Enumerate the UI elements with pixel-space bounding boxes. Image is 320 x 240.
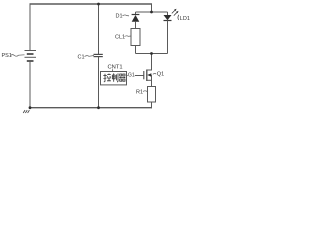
label PS1 bbox=[2, 53, 25, 59]
wire LED-branch top node bbox=[136, 11, 168, 13]
junction node at top right bbox=[150, 11, 153, 14]
svg-text:G1: G1 bbox=[128, 72, 135, 78]
junction node ground corner bbox=[29, 106, 32, 109]
wire left rail upper bbox=[29, 4, 31, 51]
junction node at LED bottom bbox=[150, 52, 153, 55]
svg-text:LD1: LD1 bbox=[180, 16, 190, 22]
wire top right drop bbox=[151, 4, 153, 12]
current limiter CL1 box bbox=[131, 29, 140, 46]
label LD1 bbox=[178, 15, 190, 22]
svg-text:D1: D1 bbox=[116, 14, 123, 20]
controller CNT1 chinese text bbox=[103, 73, 125, 82]
svg-text:Q1: Q1 bbox=[157, 72, 164, 78]
junction node C1/bottom rail bbox=[97, 106, 100, 109]
svg-text:CL1: CL1 bbox=[115, 35, 125, 41]
label CL1 bbox=[115, 35, 131, 41]
diode D1 bbox=[132, 12, 140, 29]
svg-text:CNT1: CNT1 bbox=[108, 64, 123, 70]
svg-text:C1: C1 bbox=[78, 55, 85, 61]
label Q1 bbox=[153, 72, 164, 78]
wire node to Q1 drain bbox=[147, 54, 152, 71]
label C1 bbox=[78, 55, 95, 61]
wire R1 to bottom rail bbox=[151, 102, 153, 108]
LED LD1 bbox=[164, 12, 172, 54]
svg-text:R1: R1 bbox=[136, 89, 143, 95]
label R1 bbox=[136, 89, 148, 95]
LED light arrows bbox=[172, 9, 179, 16]
svg-text:PS1: PS1 bbox=[2, 53, 12, 59]
junction node C1/top rail bbox=[97, 3, 100, 6]
wire top rail bbox=[30, 3, 153, 5]
ground bbox=[23, 110, 29, 113]
wire C1 branch upper bbox=[98, 4, 100, 55]
battery PS1 bbox=[25, 51, 37, 62]
wire C1 branch lower bbox=[98, 57, 100, 108]
wire bottom rail bbox=[30, 107, 153, 109]
capacitor C1 bbox=[94, 54, 103, 56]
resistor R1 box bbox=[148, 87, 156, 103]
wire gate to CNT1 bbox=[127, 75, 128, 77]
wire left rail lower bbox=[29, 61, 31, 108]
CNT1 label leader tick bbox=[112, 69, 114, 71]
wire LED-branch bottom node bbox=[136, 53, 168, 55]
transistor Q1 (MOSFET) bbox=[144, 70, 152, 87]
wire CL1 to bottom node bbox=[135, 46, 137, 54]
label D1 bbox=[116, 14, 130, 20]
controller CNT1 box bbox=[101, 72, 127, 85]
